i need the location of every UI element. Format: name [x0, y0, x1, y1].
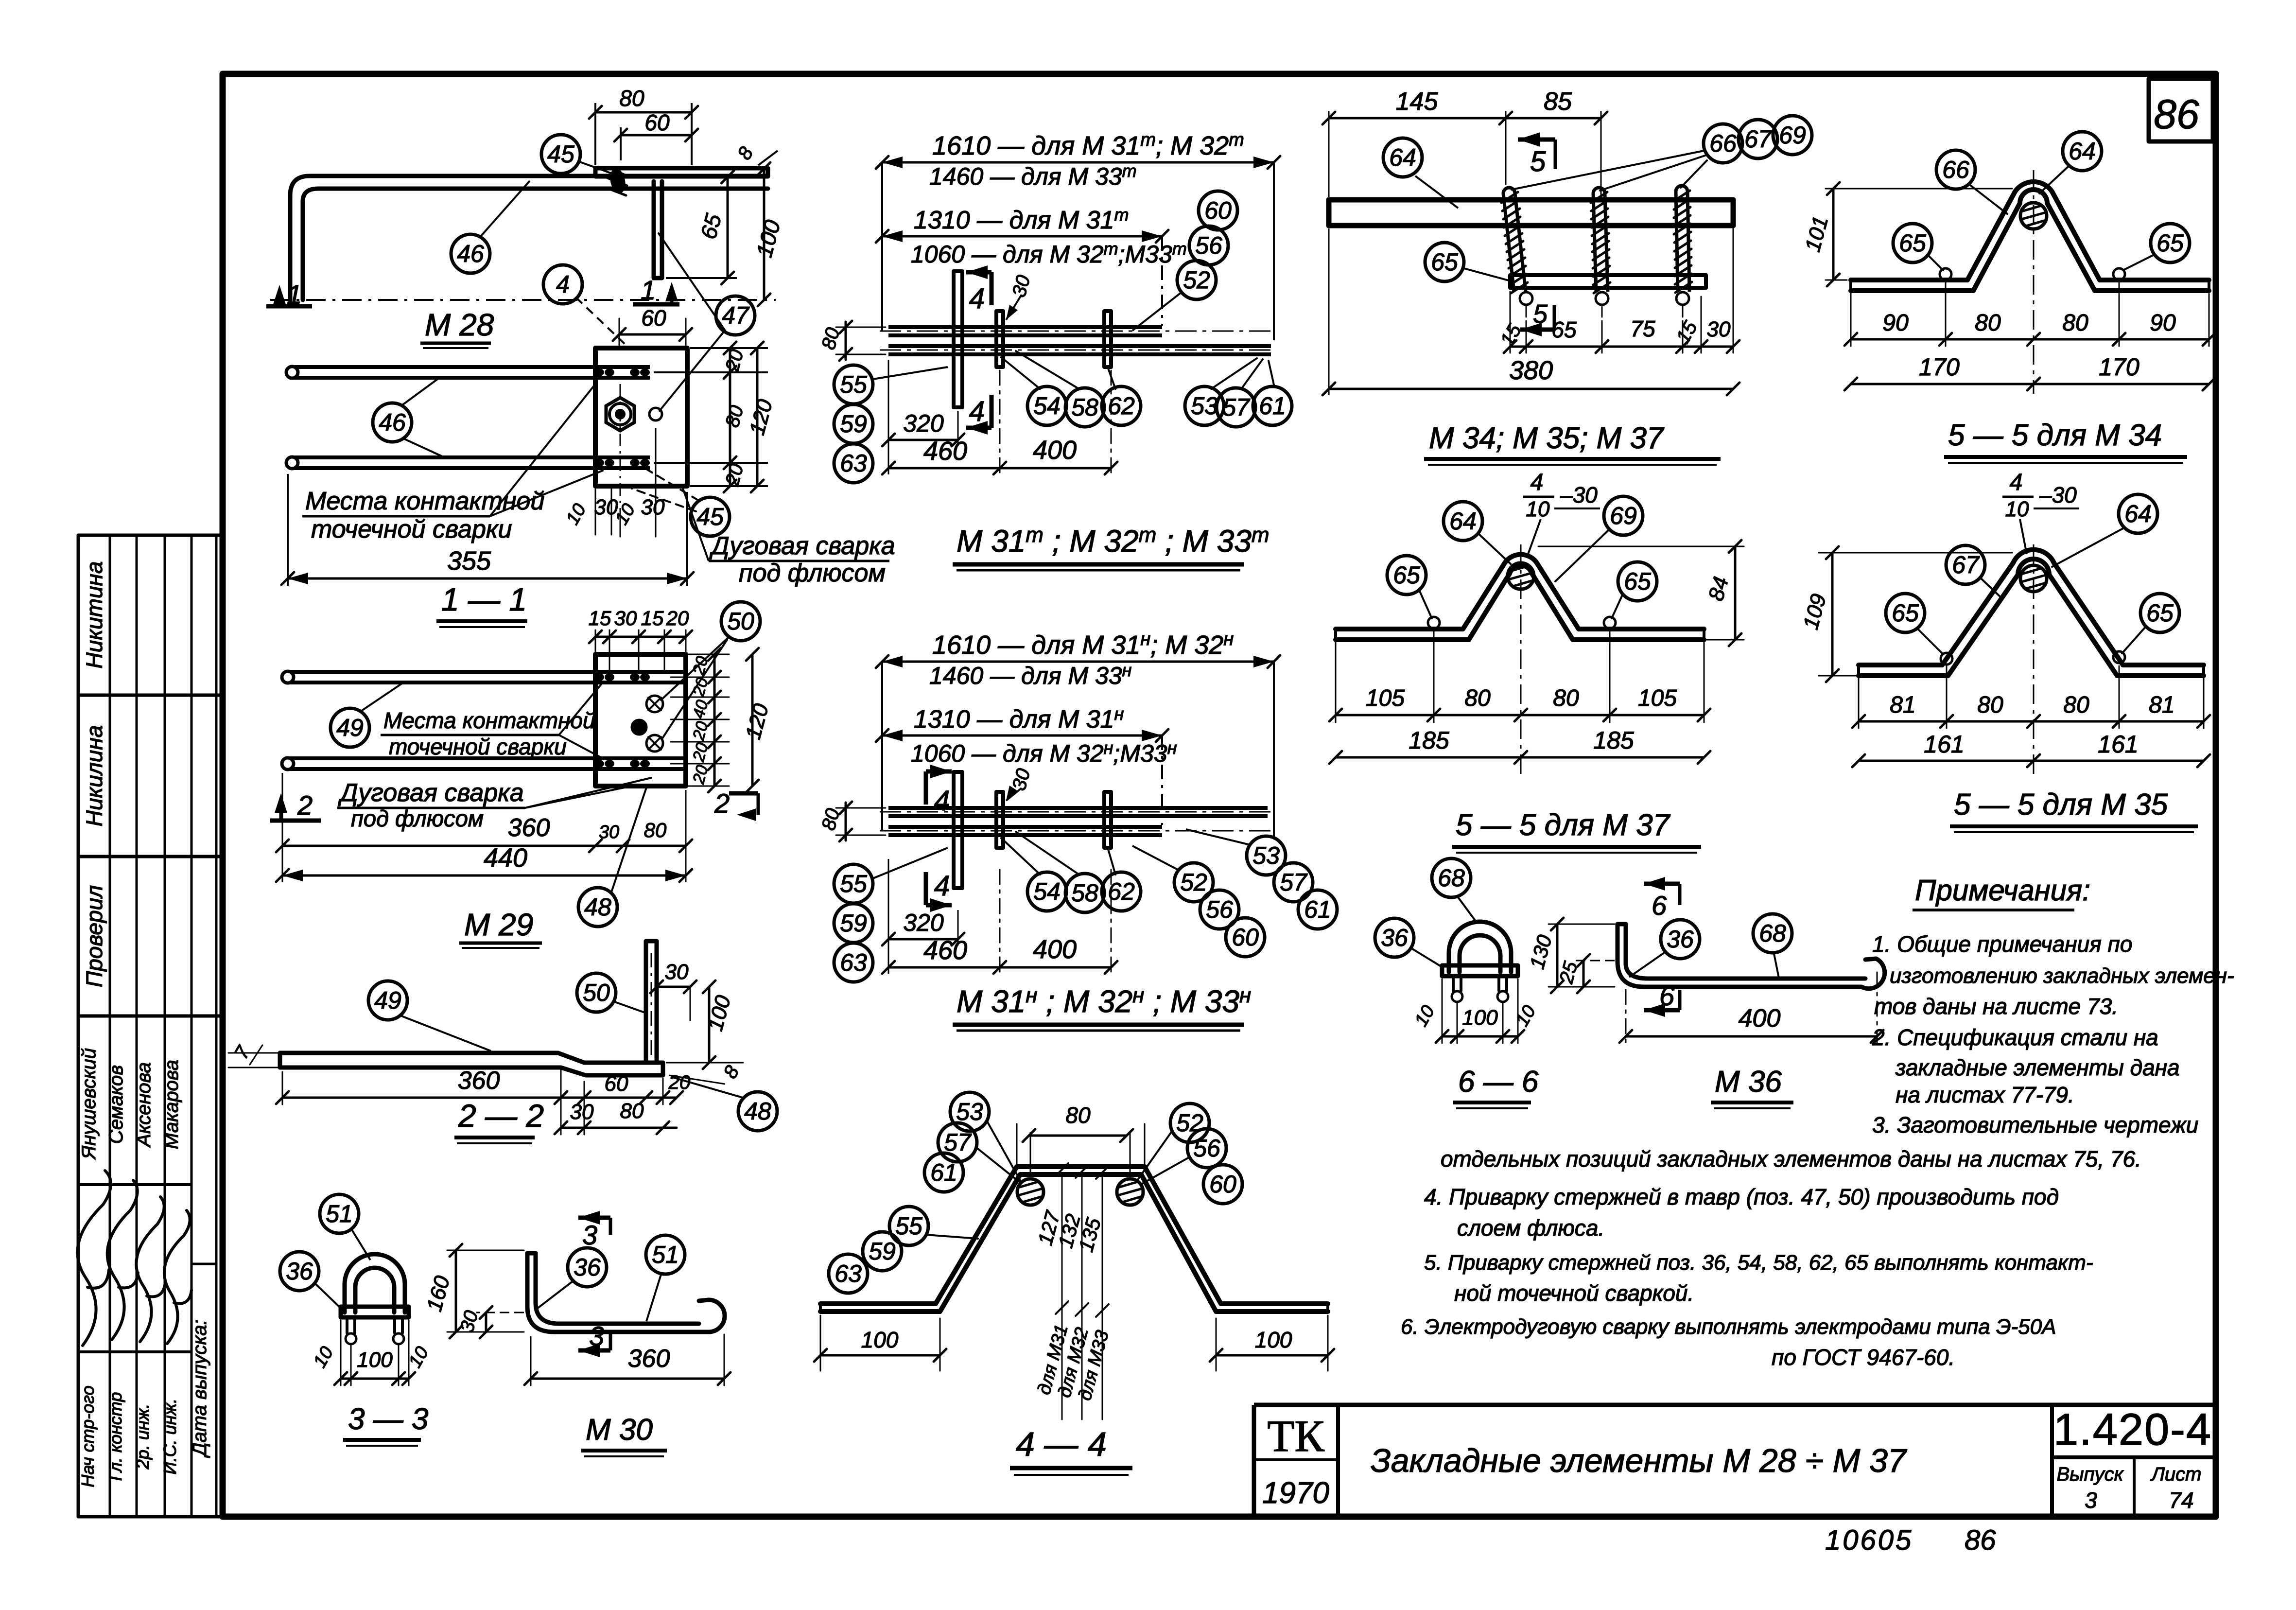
svg-text:Примечания:: Примечания:: [1915, 874, 2090, 907]
svg-text:5 — 5 для М 34: 5 — 5 для М 34: [1948, 419, 2162, 452]
svg-text:30: 30: [1707, 317, 1731, 341]
node label 36: [1661, 920, 1700, 959]
note 4: [1424, 1184, 2059, 1241]
svg-text:53: 53: [1191, 392, 1218, 420]
node label 64: [2063, 132, 2102, 171]
node label 46: [451, 234, 490, 273]
svg-text:65: 65: [1892, 599, 1919, 627]
dimension 440 of M29: [276, 773, 692, 882]
left signature stamp table: [78, 535, 223, 1517]
svg-text:320: 320: [903, 909, 944, 936]
svg-text:85: 85: [1544, 87, 1572, 116]
inventory numbers below frame: [1825, 1524, 1996, 1556]
svg-text:75: 75: [1630, 316, 1655, 341]
section mark 5 top of M34: [1518, 132, 1555, 177]
figure M29 plug welds: [632, 696, 663, 752]
node label 62: [1102, 386, 1141, 425]
node label 56: [1200, 890, 1239, 929]
figure 5-5 M35 rod section: [2020, 565, 2047, 592]
leader 36 to corner: [537, 1281, 573, 1309]
svg-text:36: 36: [1667, 926, 1694, 953]
svg-text:3 — 3: 3 — 3: [348, 1402, 428, 1436]
node label 67: [1739, 120, 1777, 158]
node label 65: [2151, 224, 2190, 262]
svg-text:1460 — для М 33т: 1460 — для М 33т: [929, 161, 1137, 190]
svg-text:65: 65: [2157, 229, 2184, 257]
leader 36 to crossbar: [1412, 949, 1443, 967]
caption 5-5 for M34: [1944, 419, 2187, 463]
figure 5-5 M34 center line: [2033, 170, 2035, 394]
figure M28 base axis line: [270, 299, 776, 301]
node label 53: [950, 1092, 989, 1131]
svg-text:6: 6: [1652, 890, 1667, 921]
caption 5-5 for M37: [1452, 808, 1701, 853]
svg-text:61: 61: [1304, 896, 1331, 923]
svg-text:81: 81: [2149, 692, 2174, 718]
dimensions 127 132 135 of 4-4: [1033, 1163, 1113, 1419]
svg-text:100: 100: [861, 1327, 899, 1352]
svg-text:145: 145: [1396, 87, 1439, 116]
svg-text:460: 460: [923, 437, 967, 466]
svg-text:М 31н ; М 32н ; М 33н: М 31н ; М 32н ; М 33н: [957, 983, 1251, 1019]
svg-text:52: 52: [1176, 1109, 1203, 1137]
node label 4: [543, 265, 582, 304]
svg-text:67: 67: [1744, 125, 1773, 153]
figure 5-5 M37 center line: [1520, 544, 1522, 778]
figure 4-4 rod section right: [1117, 1179, 1143, 1205]
svg-text:56: 56: [1206, 896, 1233, 923]
node label 59: [863, 1232, 902, 1271]
svg-text:68: 68: [1438, 864, 1465, 892]
svg-text:90: 90: [1882, 310, 1909, 336]
leaders 53 57 61 M31t: [1211, 358, 1274, 389]
dimensions 20 80 20 right of plate: [654, 342, 768, 492]
figure M31н rod lower: [880, 827, 1273, 835]
node label 50: [721, 602, 760, 641]
leader 49 to bar: [401, 1016, 491, 1051]
leader 36 to M36 corner: [1629, 953, 1664, 977]
svg-text:М 28: М 28: [425, 307, 494, 342]
svg-text:10: 10: [1526, 497, 1550, 521]
node label 60: [1203, 1165, 1242, 1204]
leader 48 to plate: [611, 787, 646, 892]
node label 66: [1704, 124, 1742, 163]
figure M29 rod 49 lower: [282, 758, 686, 770]
leader 55 M31т: [873, 367, 948, 379]
dimension 100 of M28: [751, 162, 785, 306]
dimension 60 of M28: [614, 110, 698, 160]
svg-text:60: 60: [1209, 1171, 1236, 1198]
svg-text:15: 15: [641, 607, 664, 630]
svg-text:2. Спецификация стали на: 2. Спецификация стали на: [1872, 1025, 2158, 1050]
svg-text:1. Общие примечания по: 1. Общие примечания по: [1872, 931, 2132, 957]
svg-text:отдельных позиций закладных эл: отдельных позиций закладных элементов да…: [1441, 1146, 2141, 1172]
figure M31т section mark 4 bottom: [966, 395, 991, 435]
section mark 6 top of M36: [1644, 877, 1680, 921]
leader 45 to weld: [578, 161, 613, 174]
svg-text:170: 170: [2099, 353, 2139, 381]
svg-text:М 29: М 29: [464, 907, 533, 942]
svg-text:5: 5: [1533, 299, 1548, 329]
node label 36: [1375, 918, 1414, 957]
svg-text:65: 65: [1431, 248, 1458, 276]
leaders 66 67 69 to stirrups: [1512, 151, 1707, 191]
svg-text:Дуговая сварка: Дуговая сварка: [709, 532, 895, 560]
svg-text:Гл. констр: Гл. констр: [105, 1392, 125, 1481]
svg-text:6. Электродуговую сварку выпол: 6. Электродуговую сварку выполнять элект…: [1401, 1315, 2056, 1339]
section mark 3 bottom of M30: [578, 1321, 610, 1357]
dimensions 170 170 of 5-5 M34: [1844, 353, 2215, 390]
node label 45: [541, 135, 580, 174]
dimension 320 of M31т: [882, 410, 964, 446]
svg-text:15: 15: [589, 607, 611, 630]
svg-text:2: 2: [297, 790, 313, 821]
svg-text:80: 80: [1553, 685, 1579, 711]
figure 3-3 crossbar plate 36: [341, 1307, 409, 1317]
svg-text:59: 59: [869, 1238, 896, 1265]
svg-text:46: 46: [379, 409, 406, 436]
svg-text:2: 2: [714, 788, 730, 819]
svg-text:Аксенова: Аксенова: [133, 1062, 155, 1148]
svg-text:точечной сварки: точечной сварки: [311, 515, 512, 543]
svg-text:36: 36: [1381, 924, 1408, 951]
svg-text:81: 81: [1890, 692, 1915, 718]
figure 1-1 rod 46 upper: [286, 367, 650, 378]
svg-text:380: 380: [1509, 356, 1553, 385]
svg-text:51: 51: [326, 1200, 353, 1227]
figure M31т rod upper: [880, 327, 1273, 335]
dimensions 185 185 of 5-5 M37: [1329, 727, 1710, 764]
title block frame: [1254, 1405, 2216, 1517]
figure M34 lower rod 65: [1510, 275, 1706, 288]
svg-text:Проверил: Проверил: [82, 885, 107, 987]
svg-text:1310 — для М 31н: 1310 — для М 31н: [914, 704, 1124, 734]
svg-text:74: 74: [2169, 1487, 2193, 1513]
svg-text:54: 54: [1033, 878, 1061, 905]
svg-text:58: 58: [1071, 394, 1098, 421]
svg-text:52: 52: [1183, 266, 1210, 294]
note 3: [1441, 1112, 2198, 1172]
svg-text:Семаков: Семаков: [105, 1065, 127, 1144]
dimension 380 of M34: [1322, 228, 1739, 395]
svg-text:65: 65: [1551, 317, 1577, 342]
svg-text:4: 4: [556, 271, 570, 298]
figure M34 stirrup 66 first: [1503, 188, 1515, 193]
note 4/10-30 of 5-5 M37: [1523, 470, 1600, 558]
svg-text:60: 60: [1232, 924, 1259, 951]
title block vypusk cell: [2056, 1464, 2124, 1513]
svg-text:67: 67: [1952, 551, 1980, 578]
leader 47 to plate and hole: [659, 233, 725, 411]
stamp names column: [78, 1048, 182, 1160]
svg-text:4. Приварку стержней в тавр (п: 4. Приварку стержней в тавр (поз. 47, 50…: [1424, 1184, 2059, 1209]
section mark 3 top of M30: [578, 1211, 610, 1250]
node label 55: [889, 1207, 928, 1245]
node label 63: [834, 943, 873, 982]
caption 3-3: [343, 1402, 428, 1446]
leader 55 M31н: [873, 848, 948, 878]
dimension 355: [281, 474, 694, 586]
svg-text:400: 400: [1033, 436, 1077, 465]
figure 1-1 hole: [649, 408, 662, 420]
dimension 145 85 of M34: [1322, 87, 1607, 197]
figure M31н short bar 58: [1104, 792, 1111, 848]
svg-text:55: 55: [840, 371, 867, 398]
svg-text:на листах 77-79.: на листах 77-79.: [1896, 1082, 2074, 1107]
svg-text:62: 62: [1108, 878, 1135, 905]
leader 50 to plate: [613, 1001, 647, 1014]
sheet frame border: [223, 74, 2216, 1517]
svg-text:80: 80: [644, 819, 667, 841]
note 6: [1401, 1315, 2056, 1370]
leaders 54 58 62 M31н: [1001, 832, 1115, 875]
leader 51 to bar: [646, 1275, 661, 1321]
node label 53: [1185, 386, 1224, 425]
dimension 120 right of M29: [741, 648, 773, 792]
svg-text:360: 360: [458, 1067, 500, 1095]
svg-text:86: 86: [2154, 91, 2199, 137]
figure M31т small dim 30: [1006, 273, 1034, 320]
figure 5-5 M34 hat profile 66: [1851, 182, 2209, 291]
node label 65: [1425, 243, 1464, 281]
leaders 5-5 M37: [1419, 530, 1622, 618]
figure M34 stirrup 69 third: [1676, 186, 1687, 192]
svg-text:по ГОСТ 9467-60.: по ГОСТ 9467-60.: [1772, 1345, 1955, 1370]
leader 45 dashed to welds: [632, 469, 699, 511]
node label 69: [1604, 496, 1643, 535]
page number box 86: [2149, 79, 2213, 141]
node label 66: [1936, 150, 1975, 189]
svg-text:58: 58: [1071, 879, 1098, 907]
svg-text:5. Приварку стержней поз. 36,: 5. Приварку стержней поз. 36, 54, 58, 62…: [1424, 1251, 2093, 1275]
node label 56: [1189, 226, 1228, 265]
dimensions 15 30 15 20 above M29 plate: [589, 607, 692, 672]
leaders right 4-4: [1137, 1131, 1190, 1184]
svg-text:30: 30: [599, 822, 619, 842]
leader 53 M31n: [1186, 829, 1250, 845]
svg-text:65: 65: [1393, 561, 1420, 589]
figure 1-1 rod 46 lower: [286, 457, 650, 469]
svg-text:закладные элементы дана: закладные элементы дана: [1895, 1055, 2180, 1080]
leaders 54 58 62 M31т: [1001, 351, 1115, 389]
dimension 84 of 5-5 M37: [1538, 540, 1744, 646]
stamp job titles: [78, 1385, 180, 1487]
svg-text:57: 57: [1222, 394, 1251, 421]
svg-text:Янушевский: Янушевский: [78, 1048, 100, 1160]
caption M31н M32н M33н: [953, 983, 1251, 1031]
node label 65: [1893, 224, 1932, 262]
node label 48: [738, 1092, 777, 1131]
note 1: [1872, 931, 2234, 1019]
svg-text:Нач стр-ого: Нач стр-ого: [78, 1385, 98, 1487]
node label 64: [1444, 502, 1482, 541]
svg-text:61: 61: [930, 1159, 957, 1186]
caption 6-6: [1453, 1065, 1539, 1108]
svg-text:4: 4: [2010, 470, 2023, 495]
svg-text:65: 65: [1899, 229, 1926, 257]
figure M30 J-bar 51: [527, 1253, 725, 1332]
svg-text:1970: 1970: [1262, 1476, 1329, 1510]
node label 65: [2140, 594, 2179, 632]
node label 57: [1274, 863, 1313, 902]
node label 47: [716, 296, 755, 335]
svg-text:4: 4: [1531, 470, 1544, 495]
figure 1-1 bolt symbol: [606, 398, 634, 431]
svg-text:55: 55: [840, 870, 867, 897]
svg-text:5 — 5 для М 35: 5 — 5 для М 35: [1954, 788, 2168, 822]
svg-text:56: 56: [1195, 232, 1222, 259]
node label 60: [1199, 191, 1237, 230]
svg-text:30: 30: [614, 607, 637, 630]
svg-text:10605: 10605: [1825, 1524, 1913, 1556]
leader 68 to arch: [1458, 897, 1478, 924]
figure 5-5 M37 rod section: [1508, 563, 1534, 589]
figure M28 weld spot: [608, 167, 627, 195]
dimension 109 of 5-5 M35: [1799, 546, 2012, 682]
svg-text:49: 49: [374, 987, 401, 1014]
note 5: [1424, 1251, 2093, 1306]
svg-text:320: 320: [903, 410, 944, 437]
svg-text:1460 — для М 33н: 1460 — для М 33н: [929, 660, 1132, 689]
dimension 120 right: [745, 342, 777, 492]
svg-text:36: 36: [574, 1254, 601, 1281]
svg-text:59: 59: [840, 410, 867, 437]
node label 53: [1247, 836, 1286, 875]
node label 36: [568, 1248, 607, 1287]
svg-text:3: 3: [2085, 1487, 2097, 1513]
svg-text:48: 48: [744, 1098, 771, 1125]
svg-text:460: 460: [923, 936, 967, 965]
figure M28 vertical plate 47: [654, 181, 662, 278]
dimension 360 of M30: [524, 1334, 731, 1385]
node label 61: [1253, 386, 1292, 425]
svg-text:360: 360: [508, 814, 550, 842]
dimension 25 of M36: [1555, 954, 1615, 993]
svg-text:слоем флюса.: слоем флюса.: [1457, 1215, 1604, 1241]
figure M31н short bar 54: [996, 792, 1003, 848]
node label 52: [1177, 261, 1216, 299]
svg-text:Дуговая сварка: Дуговая сварка: [338, 779, 524, 807]
dimension row 360 60 20 of 2-2: [276, 1067, 690, 1104]
dimension 65 of M28: [666, 171, 737, 284]
figure 5-5 M37 weld dots: [1428, 617, 1616, 629]
figure 4-4 rod section left: [1017, 1179, 1044, 1205]
svg-text:И.С. инж.: И.С. инж.: [160, 1399, 180, 1474]
leader 68 to M36 bar: [1774, 954, 1779, 978]
section mark 5 bottom of M34: [1520, 299, 1554, 336]
svg-text:3: 3: [589, 1321, 604, 1351]
svg-text:1: 1: [287, 279, 302, 310]
svg-text:4 — 4: 4 — 4: [1016, 1425, 1107, 1463]
dimension 7 left of 2-2: [228, 1042, 280, 1067]
figure 3-3 stirrup arch 51: [345, 1254, 405, 1312]
dimensions 20 20 40 20 20 right of M29 plate: [671, 648, 729, 792]
leader 51 to arch: [352, 1230, 370, 1260]
svg-text:Выпуск: Выпуск: [2056, 1464, 2124, 1485]
node label 52: [1170, 1103, 1209, 1142]
svg-text:1060 — для М 32н;М33н: 1060 — для М 32н;М33н: [911, 738, 1177, 767]
caption 4-4: [1010, 1425, 1132, 1475]
leaders 5-5 M34: [1928, 165, 2154, 270]
figure M29 weld spots: [594, 673, 650, 768]
figure M31н section mark 4 top: [926, 765, 952, 817]
figure M31т rod lower: [880, 346, 1273, 354]
svg-text:изготовлению закладных элемен-: изготовлению закладных элемен-: [1890, 964, 2234, 988]
leader 50 to plug welds: [661, 637, 729, 739]
svg-text:440: 440: [484, 843, 527, 873]
stamp signatures: [77, 1171, 191, 1346]
figure M31т section mark 4 top: [966, 265, 991, 315]
svg-text:86: 86: [1965, 1524, 1996, 1556]
leader 4 dashed: [576, 297, 626, 345]
leader 36 to crossbar: [316, 1284, 341, 1309]
dimension 10 100 10 of 6-6: [1411, 979, 1540, 1043]
svg-text:80: 80: [2063, 692, 2089, 718]
svg-text:60: 60: [641, 305, 666, 331]
text mesta kontaktnoy svarki M29: [381, 682, 603, 759]
figure 6-6 stirrup arch 68: [1449, 922, 1511, 972]
caption M 30: [581, 1413, 667, 1456]
figure M29 anchor plate right: [595, 654, 686, 786]
svg-text:64: 64: [2069, 138, 2096, 165]
leader 46 to rods 1-1: [402, 379, 441, 456]
svg-text:5: 5: [1530, 146, 1546, 177]
svg-text:80: 80: [1464, 685, 1491, 711]
caption M 29: [459, 907, 542, 948]
svg-text:5 — 5 для М 37: 5 — 5 для М 37: [1456, 808, 1671, 842]
dimension 10 100 10 of 3-3: [310, 1320, 433, 1385]
figure M31т anchor strip 55: [954, 271, 962, 407]
section mark 2 right: [714, 788, 758, 821]
figure M34 main bar 64: [1329, 200, 1733, 226]
svg-text:3. Заготовительные чертежи: 3. Заготовительные чертежи: [1872, 1112, 2198, 1137]
svg-text:53: 53: [1252, 842, 1280, 869]
svg-text:65: 65: [2146, 599, 2174, 627]
title block TK 1970: [1262, 1411, 1329, 1510]
dimension 60 above plate 1-1: [613, 305, 692, 345]
svg-text:2 — 2: 2 — 2: [458, 1098, 544, 1134]
svg-text:1060 — для М 32т;М33т: 1060 — для М 32т;М33т: [911, 239, 1187, 268]
node label 52: [1174, 863, 1213, 902]
node label 64: [2119, 494, 2157, 533]
dimension 130 of M36: [1525, 918, 1615, 993]
svg-text:тов даны на листе 73.: тов даны на листе 73.: [1874, 994, 2118, 1019]
figure M36 bar 68: [1618, 924, 1885, 989]
svg-text:51: 51: [652, 1241, 679, 1268]
leader 52 M31n: [1132, 846, 1179, 870]
svg-text:55: 55: [895, 1212, 922, 1240]
figure 1-1 weld spots on rods: [594, 368, 650, 467]
node label 46: [373, 403, 412, 442]
node label 55: [834, 365, 873, 404]
svg-text:Никилина: Никилина: [82, 725, 107, 827]
figure 3-3 legs and welds: [346, 1317, 404, 1344]
svg-text:52: 52: [1180, 869, 1207, 896]
svg-text:80: 80: [1977, 692, 2003, 718]
svg-text:66: 66: [1942, 156, 1969, 183]
caption M34 M35 M37: [1424, 421, 1721, 465]
node label 61: [924, 1153, 963, 1192]
svg-text:100: 100: [357, 1348, 393, 1372]
figure 5-5 M35 center line: [2033, 544, 2035, 778]
figure 5-5 M35 weld dots: [1941, 651, 2125, 665]
svg-text:6: 6: [1659, 980, 1675, 1011]
figure 2-2 flat bar 49: [280, 1053, 663, 1075]
text dugovaya svarka: [682, 487, 895, 587]
leader 46 to rod: [481, 181, 530, 236]
dimension 1610 of M31н: [876, 629, 1280, 840]
svg-text:М 36: М 36: [1715, 1065, 1782, 1099]
